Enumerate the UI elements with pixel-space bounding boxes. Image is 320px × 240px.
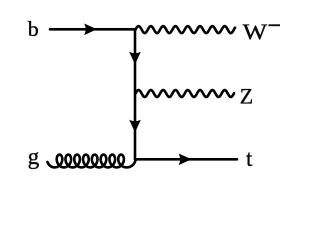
wire internal quark propagator vertical <box>134 29 137 159</box>
svg-text:b: b <box>28 17 39 41</box>
svg-text:t: t <box>246 146 253 171</box>
svg-text:Z: Z <box>240 85 253 109</box>
wire b-quark line <box>50 28 135 31</box>
svg-text:g: g <box>28 144 40 169</box>
arrow on propagator upper segment (down) <box>129 52 141 65</box>
superscript minus of W <box>269 24 281 26</box>
svg-text:W: W <box>243 19 268 44</box>
arrow on propagator lower segment (down) <box>129 120 141 133</box>
boson Z wavy line <box>136 90 235 97</box>
wire outgoing t-quark line <box>135 158 237 161</box>
boson W- wavy line <box>136 26 236 33</box>
gluon curly line <box>48 155 136 168</box>
arrow on t line (right) <box>179 154 192 166</box>
arrow on b line (right) <box>84 24 97 36</box>
